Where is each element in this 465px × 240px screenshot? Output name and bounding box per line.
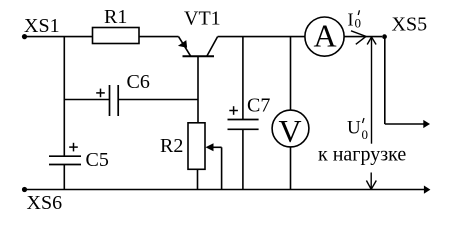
svg-text:A: A (313, 18, 336, 54)
svg-text:XS1: XS1 (24, 15, 60, 37)
resistor R1 (93, 6, 140, 44)
terminal XS6 (22, 187, 62, 214)
wire output lead with arrow (385, 37, 430, 128)
svg-text:XS6: XS6 (27, 192, 63, 214)
capacitor C6 (64, 71, 198, 116)
wire R1 to VT1 emitter (139, 36, 179, 38)
wire left column XS1 node down (63, 37, 65, 157)
svg-text:XS5: XS5 (392, 14, 428, 36)
wire VT1 base stem (197, 56, 199, 122)
svg-text:I: I (348, 9, 354, 29)
voltage arrow U0' (347, 37, 376, 189)
wire top rail XS1 to R1 (25, 36, 93, 38)
capacitor C5 (49, 143, 109, 190)
wire R2 bottom stem (197, 169, 199, 190)
wire ammeter to XS5 node (344, 36, 382, 38)
svg-text:V: V (278, 113, 301, 149)
resistor R2 potentiometer (160, 123, 205, 170)
svg-text:U: U (347, 118, 361, 139)
voltmeter V (272, 37, 309, 190)
svg-text:R1: R1 (104, 6, 127, 28)
svg-text:C6: C6 (127, 71, 150, 93)
svg-text:к нагрузке: к нагрузке (318, 144, 406, 166)
svg-text:C5: C5 (86, 149, 109, 171)
R2 wiper arrow (206, 143, 222, 189)
current arrow I0' (348, 9, 367, 44)
wire VT1 collector to ammeter (218, 36, 305, 38)
wire bottom rail with arrow (25, 186, 431, 194)
node XS5 (382, 14, 427, 40)
svg-text:0: 0 (362, 127, 369, 142)
transistor VT1 (178, 8, 221, 57)
terminal XS1 (22, 15, 60, 39)
svg-text:C7: C7 (247, 95, 270, 117)
svg-text:R2: R2 (160, 135, 183, 157)
svg-text:0: 0 (355, 16, 362, 31)
ammeter A (305, 17, 344, 56)
svg-text:VT1: VT1 (184, 8, 221, 30)
capacitor C7 (228, 37, 271, 190)
